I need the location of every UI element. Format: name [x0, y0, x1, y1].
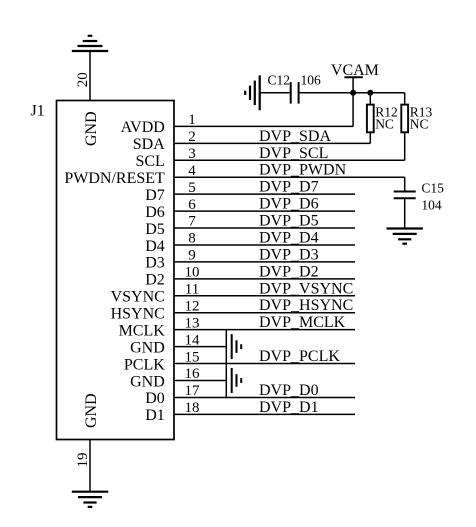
pin 19 wire (GND): [89, 440, 91, 492]
wire C12 to VCAM rail: [300, 92, 405, 94]
capacitor C15: [394, 191, 416, 193]
wire ground to C12: [260, 92, 290, 94]
svg-text:14: 14: [185, 332, 201, 348]
svg-text:17: 17: [185, 383, 201, 399]
resistor R13: [401, 105, 408, 133]
svg-text:GND: GND: [83, 111, 100, 146]
pin 20 wire (GND): [89, 51, 91, 101]
svg-text:D3: D3: [145, 255, 165, 272]
svg-text:DVP_SDA: DVP_SDA: [259, 128, 331, 145]
svg-text:D4: D4: [145, 238, 165, 255]
svg-text:DVP_SCL: DVP_SCL: [259, 145, 328, 162]
svg-text:AVDD: AVDD: [121, 119, 165, 136]
svg-text:2: 2: [188, 129, 196, 145]
svg-text:NC: NC: [410, 117, 429, 132]
svg-text:D7: D7: [145, 187, 165, 204]
pin 14 wire: [174, 346, 226, 348]
svg-text:D2: D2: [145, 272, 165, 289]
svg-text:10: 10: [185, 265, 200, 281]
junction at R12 top: [367, 90, 373, 96]
svg-text:DVP_D2: DVP_D2: [259, 263, 319, 280]
pin 13 wire: [174, 329, 355, 331]
svg-text:DVP_D0: DVP_D0: [259, 382, 319, 399]
ground (C12 left): [259, 75, 261, 110]
svg-text:D0: D0: [145, 390, 165, 407]
ground (pin 14): [231, 334, 233, 359]
pin 10 wire: [174, 278, 355, 280]
svg-text:7: 7: [188, 214, 196, 230]
svg-text:D5: D5: [145, 221, 165, 238]
svg-text:18: 18: [185, 400, 200, 416]
svg-text:3: 3: [188, 146, 196, 162]
svg-text:C12: C12: [268, 73, 291, 88]
wire R12 bottom lead to DVP_SDA: [369, 132, 371, 143]
svg-text:HSYNC: HSYNC: [111, 306, 165, 323]
pin 5 wire: [174, 193, 355, 195]
svg-text:4: 4: [188, 163, 196, 179]
svg-text:11: 11: [185, 282, 199, 298]
wire R13 bottom lead to DVP_SCL: [404, 132, 406, 160]
pin 11 wire: [174, 295, 355, 297]
wire R12 top lead: [369, 93, 371, 105]
pin 9 wire: [174, 261, 355, 263]
wire VCAM rail to pin 1 (AVDD): [352, 93, 354, 127]
svg-text:19: 19: [75, 453, 91, 468]
pin 6 wire: [174, 210, 355, 212]
pin 16 wire: [174, 380, 226, 382]
svg-text:GND: GND: [83, 393, 100, 428]
svg-text:MCLK: MCLK: [119, 322, 166, 339]
svg-text:12: 12: [185, 298, 200, 314]
pin 7 wire: [174, 227, 355, 229]
ground (top, pin 20): [72, 50, 108, 52]
connector J1 body: [57, 101, 175, 440]
svg-text:SCL: SCL: [135, 153, 164, 170]
ground (pin 16): [231, 368, 233, 393]
svg-text:C15: C15: [421, 181, 444, 196]
svg-text:J1: J1: [31, 103, 45, 120]
svg-text:DVP_D1: DVP_D1: [259, 399, 319, 416]
wire gnd bracket (pins 13-15): [225, 330, 227, 364]
svg-text:16: 16: [185, 366, 201, 382]
pin 17 wire: [174, 396, 355, 398]
svg-text:DVP_D7: DVP_D7: [259, 179, 319, 196]
pin 8 wire: [174, 244, 355, 246]
svg-text:PWDN/RESET: PWDN/RESET: [64, 170, 165, 187]
resistor R12: [367, 105, 374, 133]
svg-text:DVP_D4: DVP_D4: [259, 229, 319, 246]
pin 12 wire: [174, 312, 355, 314]
svg-text:13: 13: [185, 315, 200, 331]
svg-text:DVP_MCLK: DVP_MCLK: [259, 314, 346, 331]
svg-text:DVP_HSYNC: DVP_HSYNC: [259, 297, 353, 314]
pin 15 wire: [174, 363, 355, 365]
pin 3 wire: [174, 159, 405, 161]
svg-text:15: 15: [185, 349, 200, 365]
wire DVP_PWDN to C15: [404, 177, 406, 191]
ground (C15): [387, 227, 423, 229]
svg-text:DVP_D5: DVP_D5: [259, 213, 319, 230]
svg-text:SDA: SDA: [133, 136, 165, 153]
wire gnd bracket (pins 15-17): [225, 364, 227, 398]
pin 2 wire: [174, 142, 370, 144]
svg-text:VCAM: VCAM: [331, 62, 379, 79]
junction at VCAM stem: [350, 90, 356, 96]
wire C15 bottom lead: [404, 199, 406, 229]
svg-text:6: 6: [188, 197, 196, 213]
svg-text:DVP_D6: DVP_D6: [259, 196, 319, 213]
svg-text:GND: GND: [130, 339, 165, 356]
svg-text:D1: D1: [145, 407, 165, 424]
svg-text:8: 8: [188, 231, 196, 247]
svg-text:PCLK: PCLK: [124, 356, 165, 373]
pin 18 wire: [174, 413, 355, 415]
svg-text:GND: GND: [130, 373, 165, 390]
svg-text:DVP_VSYNC: DVP_VSYNC: [259, 280, 353, 297]
svg-text:9: 9: [188, 248, 196, 264]
svg-text:DVP_D3: DVP_D3: [259, 246, 319, 263]
svg-text:VSYNC: VSYNC: [111, 289, 165, 306]
wire R13 top lead: [404, 93, 406, 105]
svg-text:DVP_PWDN: DVP_PWDN: [259, 162, 347, 179]
pin 4 wire: [174, 176, 405, 178]
power flag VCAM: [344, 76, 363, 78]
svg-text:1: 1: [188, 112, 196, 128]
svg-text:106: 106: [301, 73, 322, 88]
svg-text:20: 20: [75, 72, 91, 87]
svg-text:D6: D6: [145, 204, 165, 221]
svg-text:NC: NC: [375, 117, 394, 132]
svg-text:104: 104: [421, 198, 442, 213]
ground (bottom, pin 19): [72, 491, 108, 493]
capacitor C12: [290, 82, 292, 104]
svg-text:DVP_PCLK: DVP_PCLK: [259, 348, 340, 365]
pin 1 wire: [174, 125, 353, 127]
svg-text:5: 5: [188, 180, 196, 196]
